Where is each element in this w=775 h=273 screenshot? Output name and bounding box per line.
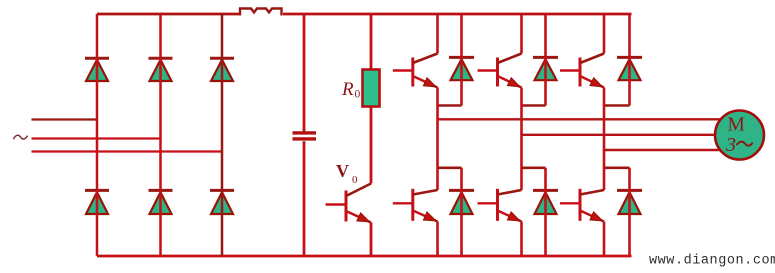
transistor V4 (inverter lower) <box>393 189 438 222</box>
wire inverter leg 3 midpoint vertical (node W) <box>603 88 606 191</box>
wire output rail W to motor <box>604 149 721 151</box>
wire top DC bus (right of inductor L1) <box>283 13 632 16</box>
wire inverter leg 2 lower junction jog <box>522 167 546 170</box>
wire transistor V6 emitter to bottom bus <box>520 222 523 257</box>
wire freewheel diode D11 branch (top bus to junction) <box>628 14 631 106</box>
wire rectifier leg 3 (top bus through D3, phase tap, D6 to bottom bus) <box>221 14 224 256</box>
wire output rail U to motor <box>438 118 722 120</box>
wire transistor V2 emitter to bottom bus <box>603 222 606 257</box>
freewheel diode D9 <box>533 57 558 80</box>
wire inverter leg 1 lower junction jog <box>438 167 462 170</box>
wire top DC bus (left of inductor L1) <box>97 13 240 16</box>
rectifier diode D6 <box>210 190 234 214</box>
wire R0 to V0 collector <box>370 107 373 184</box>
wire inverter leg 2 midpoint vertical (node V) <box>520 88 523 191</box>
freewheel diode D12 <box>533 190 558 214</box>
svg-text:0: 0 <box>355 89 361 101</box>
transistor V5 (inverter upper) <box>560 54 604 88</box>
wire inverter leg 3 upper junction jog <box>604 104 630 107</box>
wire capacitor C1 top lead <box>303 14 306 132</box>
svg-text:3: 3 <box>725 134 736 156</box>
transistor V1 (inverter upper) <box>393 54 438 88</box>
wire inverter leg 1 collector drop (top bus to V1) <box>436 14 439 54</box>
freewheel diode D10 <box>449 190 474 214</box>
wire resistor R0 top lead <box>370 14 373 70</box>
wire transistor V4 emitter to bottom bus <box>436 222 439 257</box>
transistor V3 (inverter upper) <box>478 54 522 88</box>
freewheel diode D7 <box>449 57 474 80</box>
wire inverter leg 2 collector drop (top bus to V3) <box>520 14 523 54</box>
transistor V2 (inverter lower) <box>560 189 604 222</box>
rectifier diode D4 <box>85 190 109 214</box>
wire inverter leg 1 upper junction jog <box>438 104 462 107</box>
motor M1 (3-phase induction motor) <box>715 111 764 160</box>
wire rectifier leg 2 (top bus through D2, phase tap, D5 to bottom bus) <box>159 14 162 256</box>
svg-text:V: V <box>336 161 349 181</box>
inductor L1 (DC link choke) <box>240 9 282 16</box>
wire rectifier leg 1 (top bus through D1, phase tap, D4 to bottom bus) <box>96 14 99 256</box>
wire phase L2 input <box>32 137 161 139</box>
svg-text:R: R <box>341 79 354 100</box>
transistor V6 (inverter lower) <box>478 189 522 222</box>
wire freewheel diode D12 branch (junction to bottom bus) <box>544 168 547 256</box>
wire freewheel diode D7 branch (top bus to junction) <box>460 14 463 106</box>
wire V0 emitter to bottom bus <box>370 223 373 257</box>
rectifier diode D5 <box>149 190 173 214</box>
svg-text:www.diangon.com: www.diangon.com <box>649 254 775 269</box>
wire inverter leg 3 lower junction jog <box>604 167 630 170</box>
rectifier diode D1 <box>85 58 109 81</box>
wire phase L3 input <box>32 150 223 152</box>
transistor V0 (brake chopper) <box>326 184 372 223</box>
capacitor C1 (DC link filter) <box>293 133 317 139</box>
freewheel diode D8 <box>617 190 642 214</box>
wire inverter leg 3 collector drop (top bus to V5) <box>603 14 606 54</box>
rectifier diode D3 <box>210 58 234 81</box>
svg-text:0: 0 <box>352 174 358 186</box>
wire inverter leg 2 upper junction jog <box>522 104 546 107</box>
three-phase AC source terminal ~ <box>14 135 28 139</box>
wire freewheel diode D8 branch (junction to bottom bus) <box>628 168 631 256</box>
wire freewheel diode D9 branch (top bus to junction) <box>544 14 547 106</box>
resistor R0 (braking resistor) <box>363 70 380 107</box>
rectifier diode D2 <box>149 58 173 81</box>
wire phase L1 input <box>32 118 98 120</box>
freewheel diode D11 <box>617 57 642 80</box>
svg-text:M: M <box>728 115 745 136</box>
wire freewheel diode D10 branch (junction to bottom bus) <box>460 168 463 256</box>
wire output rail V to motor <box>522 134 722 136</box>
wire inverter leg 1 midpoint vertical (node U) <box>436 88 439 191</box>
wire capacitor C1 bottom lead <box>303 141 306 256</box>
wire bottom DC bus <box>97 255 632 258</box>
